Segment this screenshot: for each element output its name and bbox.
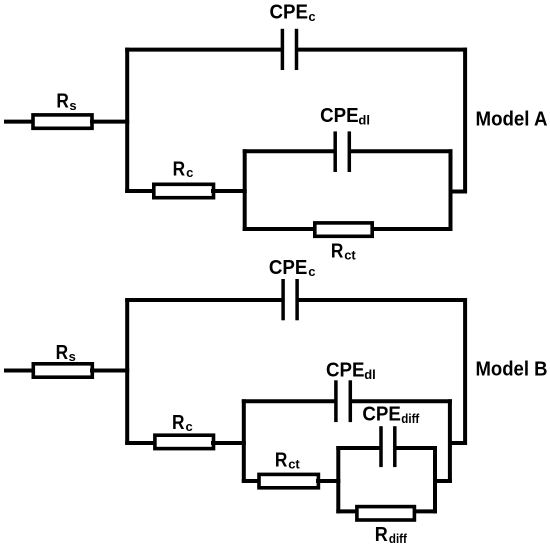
wire: middle box left edge (Model B) [242, 399, 246, 483]
capacitor CPEc (Model B) [283, 279, 297, 320]
svg-text:R: R [275, 449, 288, 471]
svg-text:diff: diff [401, 411, 420, 426]
svg-text:R: R [173, 158, 186, 180]
resistor Rs (Model B) [33, 364, 92, 377]
label Rdiff (Model B) [375, 524, 408, 546]
wire: top branch left segment to CPEc (Model A) [125, 48, 283, 52]
svg-text:R: R [56, 90, 69, 112]
svg-text:Model A: Model A [476, 109, 548, 131]
wire: Rct to diffusion box (Model B) [316, 479, 340, 483]
wire: inner box left edge (Model A) [243, 149, 247, 231]
svg-text:dl: dl [364, 367, 376, 382]
wire: diffusion box right edge (Model B) [433, 446, 437, 513]
wire: Rc to inner parallel box (Model A) [211, 189, 247, 193]
wire: right vertical rail (Model B) [463, 298, 467, 445]
svg-text:R: R [56, 342, 69, 364]
label Rs (Model B) [56, 342, 76, 364]
svg-text:dl: dl [358, 112, 370, 127]
wire: inner box bottom edge (Model A) [243, 227, 453, 231]
svg-text:CPE: CPE [270, 2, 309, 24]
wire: inner box to right rail connector (Model A) [449, 190, 468, 194]
wire: bottom branch from left rail to Rc (Model B) [125, 441, 156, 445]
resistor Rct (Model A) [315, 223, 372, 236]
wire: middle box to right rail connector (Model B) [448, 441, 467, 445]
label Rc (Model A) [173, 158, 194, 180]
svg-text:Model B: Model B [476, 359, 548, 381]
resistor Rs (Model A) [33, 115, 92, 128]
label CPEc (Model A) [270, 2, 316, 24]
wire: diffusion box bottom edge (Model B) [336, 509, 437, 513]
svg-text:c: c [186, 165, 193, 180]
label Rc (Model B) [172, 412, 193, 434]
wire: top branch right segment from CPEc (Model A) [296, 48, 467, 52]
label CPEdl (Model B) [326, 359, 376, 382]
wire: inner box top edge right of CPEdl (Model A) [349, 149, 453, 153]
capacitor CPEc (Model A) [282, 29, 296, 70]
wire: diffusion box top edge left of CPEdiff (Model B) [336, 446, 382, 450]
wire: input stub left of Rs (Model A) [4, 120, 35, 124]
resistor Rc (Model B) [155, 435, 214, 448]
wire: Rs to left junction node (Model A) [90, 120, 129, 124]
wire: diffusion box top edge right of CPEdiff (Model B) [394, 446, 437, 450]
svg-text:CPE: CPE [269, 257, 308, 279]
resistor Rdiff (Model B) [357, 507, 415, 520]
capacitor CPEdl (Model A) [335, 131, 349, 172]
wire: right vertical rail (Model A) [463, 48, 467, 194]
wire: middle box top edge left of CPEdl (Model B) [242, 399, 337, 403]
svg-text:ct: ct [344, 248, 356, 263]
wire: inner box right edge (Model A) [449, 149, 453, 231]
wire: diffusion box left edge (Model B) [336, 446, 340, 513]
wire: middle box top edge right of CPEdl (Model B) [350, 399, 452, 403]
capacitor CPEdiff (Model B) [381, 426, 395, 467]
svg-text:diff: diff [389, 531, 408, 546]
svg-text:CPE: CPE [320, 105, 359, 127]
wire: top branch left segment to CPEc (Model B) [125, 298, 283, 302]
wire: left vertical rail (Model B) [125, 298, 129, 445]
wire: Rs to left junction node (Model B) [90, 369, 129, 373]
label CPEdiff (Model B) [362, 404, 419, 426]
wire: middle box bottom branch to Rct (Model B) [242, 479, 260, 483]
svg-text:s: s [69, 98, 76, 113]
svg-text:R: R [375, 524, 388, 546]
svg-text:c: c [308, 264, 315, 279]
resistor Rc (Model A) [154, 184, 214, 197]
svg-text:ct: ct [288, 456, 300, 471]
svg-text:R: R [331, 241, 344, 263]
label CPEc (Model B) [269, 257, 316, 279]
capacitor CPEdl (Model B) [336, 380, 350, 422]
resistor Rct (Model B) [259, 474, 318, 487]
svg-text:CPE: CPE [326, 359, 365, 381]
wire: diffusion box right edge to middle box right edge connector (Model B) [433, 479, 452, 483]
wire: inner box top edge left of CPEdl (Model A) [243, 149, 336, 153]
wire: left vertical rail (Model A) [125, 48, 129, 193]
svg-text:CPE: CPE [362, 404, 401, 426]
wire: bottom branch from left rail to Rc (Model A) [125, 189, 156, 193]
svg-text:c: c [308, 9, 315, 24]
wire: Rc to middle parallel box (Model B) [211, 441, 246, 445]
label CPEdl (Model A) [320, 105, 370, 128]
label Rct (Model B) [275, 449, 301, 471]
wire: top branch right segment from CPEc (Model B) [297, 298, 467, 302]
svg-text:c: c [186, 419, 193, 434]
svg-text:R: R [172, 412, 185, 434]
label Rs (Model A) [56, 90, 76, 112]
label Rct (Model A) [331, 241, 357, 263]
wire: middle box right edge (Model B) [448, 399, 452, 483]
svg-text:s: s [69, 349, 76, 364]
wire: input stub left of Rs (Model B) [4, 369, 35, 373]
